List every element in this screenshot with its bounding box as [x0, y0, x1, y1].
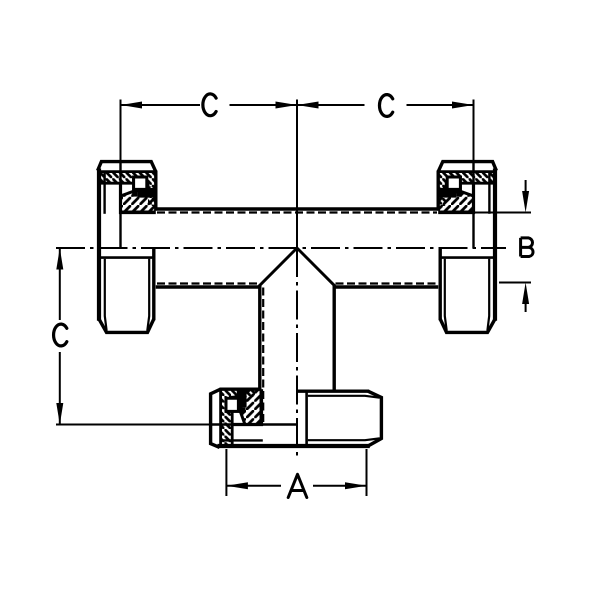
nut bottom: outer profile: [211, 389, 221, 447]
horizontal tube bottom edge right: [333, 285, 438, 288]
nut right: port face line: [472, 162, 474, 248]
dimension A: label: [288, 474, 307, 497]
nut left: outer profile: [98, 162, 156, 172]
branch thread dashed: [262, 288, 264, 424]
nut right: outer profile: [438, 162, 496, 172]
nut bottom: thread band section: [222, 390, 255, 446]
dimension C top-left: label: [203, 94, 216, 116]
dimension C left: label: [54, 324, 67, 346]
horizontal tube bottom edge left: [156, 285, 261, 288]
nut left: thread band section: [99, 173, 155, 206]
dimension C left: dim line: [59, 248, 61, 320]
dimension C top: lines: [121, 104, 201, 106]
nut bottom: flare + sleeve: [236, 391, 261, 424]
dimension B: label: [521, 238, 533, 257]
dimension C left: extension line bottom: [56, 424, 231, 426]
nut right: flare + sleeve: [440, 187, 473, 212]
nut left: flare + sleeve: [121, 187, 154, 212]
dimension A: extension lines: [225, 449, 227, 496]
nut bottom: port face line: [211, 423, 297, 425]
crotch diagonal right: [297, 248, 334, 285]
nut left: exterior half (hex): [100, 256, 154, 259]
vertical centerline lower dash-dot: [296, 248, 298, 459]
nut right: exterior half (hex): [440, 256, 494, 259]
dimension C top: arrows: [121, 102, 143, 109]
nut left: port face line: [119, 162, 121, 248]
dimension A: dim line: [226, 485, 281, 487]
horizontal tube top edge: [156, 207, 438, 210]
dimension C top-right: label: [379, 95, 392, 117]
branch left wall: [258, 285, 261, 391]
branch right wall: [333, 285, 336, 391]
crotch diagonal left: [260, 248, 297, 285]
vertical centerline upper (solid through tube): [296, 100, 298, 249]
dimension C top-left: extension ticks: [120, 100, 122, 162]
dimension B: arrows/stems: [525, 180, 527, 192]
bottom thread dashed right: [336, 282, 438, 284]
dimension B: extension lines: [471, 212, 531, 214]
horizontal centerline: [56, 247, 506, 249]
nut right: thread band section: [439, 173, 495, 206]
horizontal tube top thread dashed: [157, 211, 437, 213]
bottom thread dashed left: [157, 282, 259, 284]
nut bottom: exterior half (hex): [305, 391, 308, 445]
